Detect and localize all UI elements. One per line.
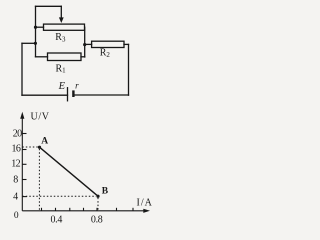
svg-text:r: r bbox=[75, 81, 79, 91]
y-axis tick 12 bbox=[22, 163, 26, 165]
resistor R3 (rheostat body) bbox=[44, 24, 85, 30]
x-axis tick 1.0 bbox=[116, 208, 118, 211]
wire: R3 left lead bbox=[36, 26, 44, 28]
y-axis tick 16 bbox=[22, 149, 26, 151]
x-axis tick 0.4 bbox=[55, 208, 57, 211]
wire: bottom left to battery bbox=[22, 94, 68, 96]
U-I characteristic line A to B bbox=[40, 147, 99, 196]
junction: left node / battery branch bbox=[34, 42, 37, 45]
svg-text:R2: R2 bbox=[100, 47, 111, 58]
y-axis tick 8 bbox=[22, 179, 26, 181]
resistor R1 bbox=[48, 53, 82, 61]
wire: top horizontal to slider bbox=[36, 5, 62, 7]
svg-text:0: 0 bbox=[14, 211, 19, 221]
dotted guide: B down to x-axis bbox=[97, 198, 99, 211]
x-axis tick 0.6 bbox=[83, 208, 85, 211]
svg-text:20: 20 bbox=[13, 129, 22, 140]
graph y-axis bbox=[20, 112, 24, 211]
wire: left branch to outer loop bbox=[22, 42, 35, 44]
dotted guide: U=16 to A bbox=[22, 146, 38, 148]
svg-text:E: E bbox=[58, 81, 66, 92]
wire: R1 left lead bbox=[36, 56, 48, 58]
y-axis tick 20 bbox=[22, 133, 26, 135]
svg-text:0.4: 0.4 bbox=[50, 215, 62, 225]
svg-text:16: 16 bbox=[11, 143, 20, 154]
wire: R1 right lead bbox=[81, 56, 85, 58]
svg-text:A: A bbox=[41, 137, 48, 147]
point B bbox=[96, 195, 99, 198]
svg-text:12: 12 bbox=[11, 159, 20, 170]
graph x-axis bbox=[22, 209, 150, 213]
y-axis tick 4 bbox=[22, 196, 27, 198]
x-axis tick 0.2 bbox=[41, 208, 43, 211]
x-axis tick 0.8 bbox=[96, 208, 98, 211]
wire: right node vertical bbox=[84, 27, 86, 57]
junction: right node / R2 branch bbox=[83, 43, 86, 46]
junction: left node / R3 bbox=[34, 26, 37, 29]
wire: R2 left lead bbox=[85, 43, 92, 45]
point A bbox=[38, 146, 41, 149]
svg-text:R3: R3 bbox=[55, 32, 66, 43]
wire: R2 right lead bbox=[124, 43, 129, 45]
dotted guide: U=4 to B bbox=[22, 195, 96, 197]
dotted guide: A down to x-axis bbox=[38, 149, 40, 210]
wire: right outer vertical bbox=[128, 44, 130, 95]
svg-text:8: 8 bbox=[13, 174, 18, 185]
rheostat slider arrow bbox=[59, 6, 64, 23]
battery cell (E, r) bbox=[68, 88, 75, 101]
svg-text:B: B bbox=[102, 187, 109, 197]
wire: left outer vertical bbox=[21, 43, 23, 95]
wire: bottom right from battery bbox=[75, 94, 129, 96]
x-axis tick 1.2 bbox=[132, 208, 134, 211]
x-axis tick 0.5 bbox=[69, 208, 71, 211]
svg-text:R1: R1 bbox=[56, 63, 67, 74]
svg-text:0.8: 0.8 bbox=[91, 215, 103, 226]
svg-text:I/A: I/A bbox=[137, 198, 153, 209]
resistor R2 bbox=[92, 41, 124, 47]
svg-text:4: 4 bbox=[13, 192, 18, 203]
svg-text:U/V: U/V bbox=[31, 112, 50, 123]
wire: left node vertical bbox=[35, 6, 37, 57]
